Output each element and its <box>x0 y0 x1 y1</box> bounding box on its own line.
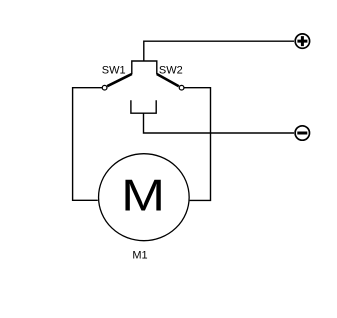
wire: SW1 contact to motor left <box>73 88 102 201</box>
motor M letter <box>121 171 165 220</box>
svg-text:M: M <box>121 171 165 220</box>
terminal +: plus sign <box>297 36 307 46</box>
switch throw contacts bracket <box>131 100 156 113</box>
svg-text:SW2: SW2 <box>159 65 183 77</box>
motor M1 body <box>99 154 190 241</box>
wire: bracket stem to - terminal <box>144 113 295 133</box>
terminal -: minus sign <box>297 132 307 135</box>
terminal +: circle <box>295 34 309 48</box>
wire: + supply to switch common <box>144 41 294 61</box>
switch SW2 lever <box>157 74 179 86</box>
terminal -: circle <box>295 126 309 140</box>
switch SW2 contact <box>179 85 184 90</box>
svg-text:SW1: SW1 <box>102 65 126 77</box>
svg-text:M1: M1 <box>132 250 147 262</box>
switch common bracket <box>132 61 157 74</box>
switch SW1 lever <box>107 74 132 86</box>
switch SW1 contact <box>102 85 107 90</box>
wire: SW2 contact to motor right <box>184 88 211 201</box>
